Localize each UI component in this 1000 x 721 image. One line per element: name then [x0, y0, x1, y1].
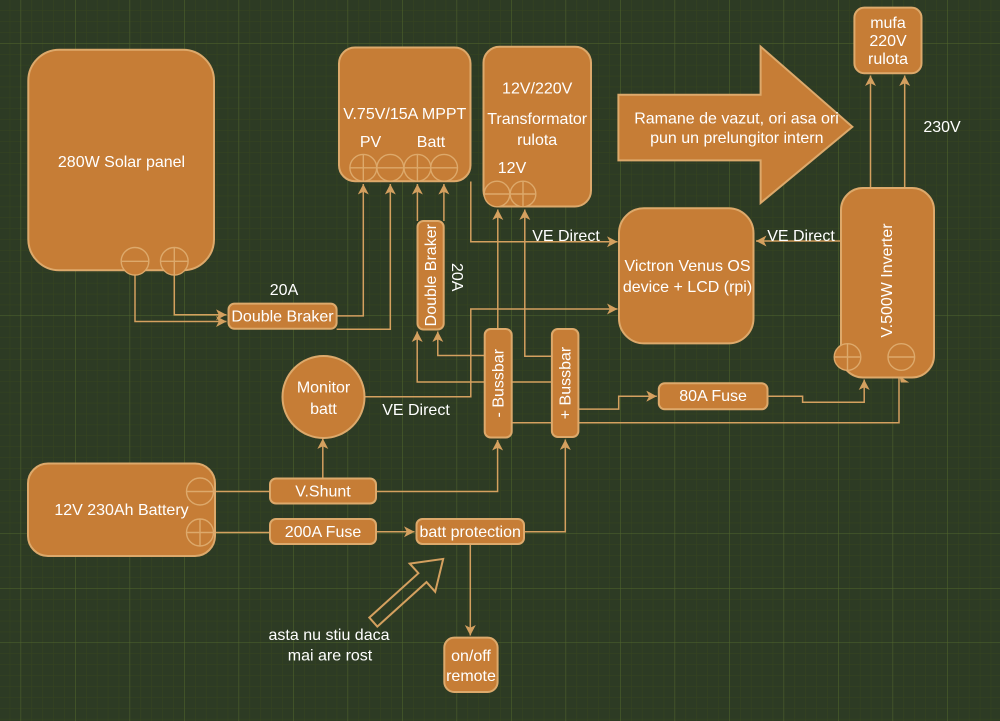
- svg-text:12V/220V: 12V/220V: [502, 81, 573, 98]
- MPPT PV plus terminal: [350, 154, 377, 181]
- wire batt protection to plus bussbar: [524, 440, 565, 532]
- V.Shunt: [270, 479, 376, 504]
- svg-text:V.500W Inverter: V.500W Inverter: [879, 223, 896, 338]
- wire solar panel minus to Double Braker: [135, 275, 227, 322]
- battery 12V 230Ah: [28, 464, 215, 557]
- batt protection: [417, 519, 525, 544]
- solar panel minus terminal: [121, 247, 149, 275]
- 80A fuse: [659, 383, 768, 409]
- wire V.Shunt to monitor batt: [322, 439, 324, 479]
- svg-text:Monitor: Monitor: [297, 380, 351, 397]
- svg-text:280W Solar panel: 280W Solar panel: [58, 154, 185, 171]
- svg-text:V.75V/15A MPPT: V.75V/15A MPPT: [343, 106, 466, 123]
- transformator plus terminal: [510, 181, 536, 207]
- 200A fuse: [270, 519, 376, 544]
- big note arrow: [618, 47, 852, 203]
- wire Double Braker vertical to MPPT Batt minus: [443, 184, 445, 221]
- battery minus terminal: [187, 478, 214, 505]
- Double Braker horizontal: [229, 304, 337, 329]
- wire Double Braker to MPPT PV plus: [337, 184, 364, 316]
- wire 200A fuse to batt protection: [376, 531, 415, 533]
- wire battery minus to V.Shunt: [214, 491, 271, 493]
- svg-text:asta nu stiu daca: asta nu stiu daca: [269, 627, 390, 644]
- solar panel: [28, 50, 214, 271]
- svg-text:VE Direct: VE Direct: [382, 402, 450, 419]
- svg-text:batt protection: batt protection: [419, 524, 520, 541]
- wire VE Direct inverter to Victron: [756, 240, 841, 242]
- hand-drawn note arrow: [369, 559, 443, 627]
- wire minus bussbar to inverter minus: [512, 377, 899, 423]
- svg-text:remote: remote: [446, 668, 496, 685]
- wire 80A fuse to inverter plus: [768, 380, 865, 403]
- svg-text:rulota: rulota: [868, 51, 908, 68]
- solar panel plus terminal: [161, 247, 189, 275]
- inverter minus terminal: [888, 344, 915, 371]
- svg-text:12V: 12V: [498, 160, 527, 177]
- svg-text:device + LCD (rpi): device + LCD (rpi): [623, 279, 752, 296]
- wire minus bussbar to transformator minus: [497, 210, 499, 330]
- svg-text:+ Bussbar: + Bussbar: [558, 346, 575, 419]
- wire battery plus to 200A fuse: [214, 532, 271, 534]
- inverter plus terminal: [834, 344, 861, 371]
- mufa 220V rulota: [854, 8, 921, 74]
- svg-text:Victron Venus OS: Victron Venus OS: [625, 258, 751, 275]
- Victron Venus OS device: [619, 208, 754, 343]
- svg-text:VE Direct: VE Direct: [532, 228, 600, 245]
- wire Double Braker to MPPT PV minus: [337, 184, 391, 329]
- MPPT Batt minus terminal: [431, 154, 458, 181]
- monitor batt: [283, 356, 365, 438]
- transformator 12V/220V: [484, 47, 592, 207]
- wire solar panel plus to Double Braker: [174, 274, 226, 315]
- MPPT PV minus terminal: [377, 154, 404, 181]
- svg-text:80A Fuse: 80A Fuse: [679, 388, 747, 405]
- inverter V.500W: [841, 188, 934, 378]
- svg-text:VE Direct: VE Direct: [767, 228, 835, 245]
- transformator minus terminal: [484, 181, 510, 207]
- plus bussbar: [552, 329, 579, 437]
- svg-text:batt: batt: [310, 401, 337, 418]
- wire inverter to mufa 220V right: [904, 76, 906, 189]
- svg-text:230V: 230V: [923, 119, 961, 136]
- wire plus bussbar to 80A fuse: [578, 396, 656, 409]
- MPPT charge controller U1: [339, 48, 471, 182]
- wire plus bussbar to transformator plus: [525, 210, 552, 357]
- svg-text:mai are rost: mai are rost: [288, 648, 373, 665]
- svg-text:pun un prelungitor intern: pun un prelungitor intern: [650, 130, 823, 147]
- svg-text:20A: 20A: [270, 282, 299, 299]
- wire Double Braker vertical to MPPT Batt plus: [416, 184, 418, 221]
- svg-text:rulota: rulota: [517, 132, 557, 149]
- svg-text:Ramane de vazut, ori asa ori: Ramane de vazut, ori asa ori: [634, 111, 839, 128]
- wire VE Direct MPPT to Victron: [471, 182, 618, 242]
- svg-text:- Bussbar: - Bussbar: [491, 348, 508, 417]
- svg-text:Double Braker: Double Braker: [423, 223, 440, 326]
- svg-text:V.Shunt: V.Shunt: [295, 484, 351, 501]
- MPPT Batt plus terminal: [404, 154, 431, 181]
- Double Braker vertical: [418, 221, 444, 330]
- svg-text:Transformator: Transformator: [487, 111, 588, 128]
- wire minus bussbar to Double Braker vertical: [438, 332, 485, 356]
- wire V.Shunt to minus bussbar: [376, 440, 498, 492]
- svg-text:on/off: on/off: [451, 648, 491, 665]
- svg-text:Double Braker: Double Braker: [231, 309, 334, 326]
- battery plus terminal: [187, 519, 214, 546]
- svg-text:12V 230Ah Battery: 12V 230Ah Battery: [54, 502, 188, 519]
- on/off remote: [444, 638, 497, 692]
- svg-text:20A: 20A: [448, 263, 465, 292]
- svg-text:mufa: mufa: [870, 15, 906, 32]
- wire plus bussbar to Double Braker vertical: [417, 332, 552, 383]
- svg-text:Batt: Batt: [417, 134, 446, 151]
- svg-text:200A Fuse: 200A Fuse: [285, 524, 362, 541]
- wire batt protection to on/off remote: [469, 544, 471, 636]
- wire inverter to mufa 220V left: [870, 76, 872, 189]
- svg-text:220V: 220V: [869, 33, 907, 50]
- wire VE Direct monitor batt to Victron: [363, 309, 618, 397]
- minus bussbar: [485, 329, 512, 438]
- svg-text:PV: PV: [360, 134, 382, 151]
